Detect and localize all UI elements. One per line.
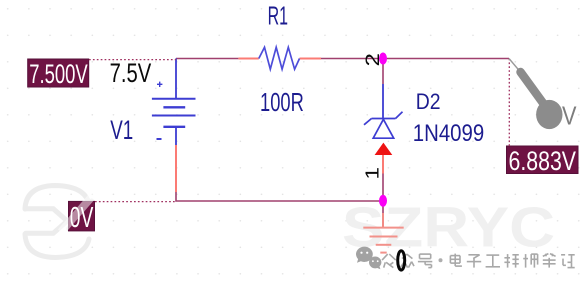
dotted leader from 0V probe: [95, 201, 176, 203]
wire: battery bottom to ground net corner: [176, 192, 383, 201]
battery plus mark: [157, 82, 162, 87]
svg-text:7.500V: 7.500V: [29, 59, 87, 89]
node 2 junction dot: [379, 53, 387, 65]
wire: zener anode pin (salmon) down to bottom net: [382, 155, 384, 174]
svg-text:1: 1: [363, 167, 383, 180]
wire: resistor right pin stub (salmon): [300, 58, 322, 60]
svg-text:D2: D2: [416, 89, 441, 114]
svg-text:1N4099: 1N4099: [413, 120, 484, 147]
wire: resistor to node 2 (dark): [321, 58, 383, 60]
wire: bottom node to ground pin: [382, 201, 384, 213]
ground net name 0: [398, 251, 405, 270]
wire: node 2 to output stub (dark): [383, 58, 509, 60]
svg-text:100R: 100R: [260, 87, 304, 117]
voltmeter probe icon: [509, 59, 520, 72]
battery V1: [152, 99, 196, 127]
watermark band over 0V box: [61, 193, 95, 232]
wire: node 2 down to zener cathode (dark then blue pin): [382, 59, 384, 85]
wire: battery top pin (blue): [175, 59, 177, 99]
svg-text:V1: V1: [110, 115, 133, 145]
dotted leader from 7.500V probe: [89, 59, 176, 61]
probe readout 7.500V: [28, 59, 89, 87]
svg-text:6.883V: 6.883V: [509, 146, 577, 176]
wechat icon: [356, 247, 381, 270]
wire: top net, battery to resistor (dark): [176, 58, 238, 60]
caption: stylized CJK strokes: [382, 254, 575, 268]
zener diode D2: [364, 112, 403, 138]
zener current arrow (red): [375, 143, 393, 155]
wire: battery bottom pin (blue then salmon): [175, 127, 177, 145]
ground symbol: [363, 228, 403, 253]
bottom net junction dot: [379, 195, 387, 207]
resistor R1 zigzag: [259, 47, 300, 69]
probe readout 6.883V: [507, 146, 579, 174]
svg-text:R1: R1: [268, 2, 288, 30]
dotted leader to 6.883V probe: [508, 59, 510, 147]
watermark logo (bottom-left circle emblem): [25, 186, 92, 258]
probe readout 0V: [69, 201, 95, 231]
battery minus mark: [157, 138, 162, 140]
svg-text:V: V: [562, 101, 577, 131]
svg-text:7.5V: 7.5V: [110, 58, 152, 88]
wire: resistor left pin stub (salmon): [238, 58, 258, 60]
